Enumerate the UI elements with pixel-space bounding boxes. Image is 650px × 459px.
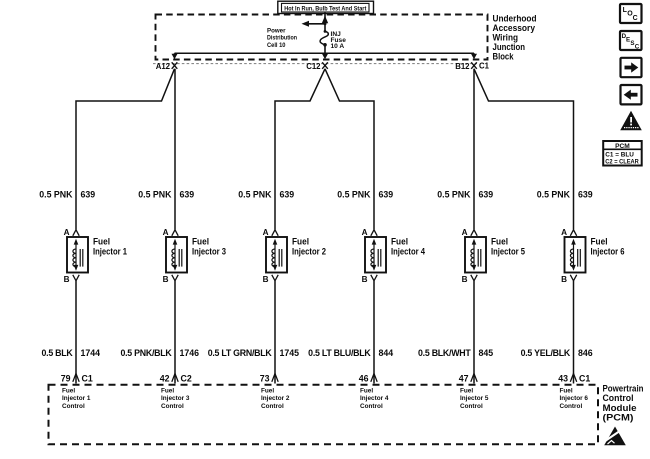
wire: Fuel Injector 3 terminal B down to PCM pin 42: [174, 281, 176, 384]
svg-text:639: 639: [578, 190, 593, 200]
svg-text:B: B: [462, 275, 468, 284]
svg-text:Fuel: Fuel: [93, 237, 110, 247]
pin connector label C1: [579, 373, 590, 383]
svg-text:Control: Control: [360, 403, 383, 410]
wire: battery feed from Hot-In-Run box down to fuse: [322, 13, 328, 31]
svg-text:Fuel: Fuel: [560, 388, 573, 395]
terminal B of Fuel Injector 3: [163, 275, 179, 284]
fuel injector 2 (Fuel Injector 2) solenoid box: [266, 237, 287, 273]
PCM pin 47 connector chevron: [471, 374, 477, 382]
wire: B12/C1 branch to injector 6 column: [474, 69, 574, 230]
wire label 0.5 PNK 639 (col 1): [39, 190, 95, 200]
svg-text:Fuel: Fuel: [360, 388, 373, 395]
svg-text:Fuel: Fuel: [62, 388, 75, 395]
svg-text:1744: 1744: [81, 348, 101, 358]
svg-text:C: C: [635, 44, 640, 51]
wire: fuse to bus bar: [324, 45, 326, 53]
terminal A of Fuel Injector 1: [64, 228, 80, 237]
connector X mark C12: [322, 62, 328, 69]
svg-text:73: 73: [260, 373, 270, 383]
pin number 42: [160, 373, 170, 383]
svg-text:Fuel: Fuel: [460, 388, 473, 395]
svg-text:Control: Control: [161, 403, 184, 410]
svg-text:1746: 1746: [180, 348, 200, 358]
terminal A of Fuel Injector 5: [462, 228, 478, 237]
svg-text:Power: Power: [267, 27, 286, 34]
wire: A12 straight down to injector 3 column: [174, 69, 176, 230]
svg-text:43: 43: [558, 373, 568, 383]
wire: A12 branch to injector 1 column: [76, 69, 175, 230]
label: Fuel Injector 4: [391, 237, 426, 257]
icon button left-arrow: [621, 85, 642, 104]
icon button DESC: [620, 31, 642, 51]
PCM internal label: Fuel Injector 6 Control: [560, 388, 589, 410]
svg-text:C: C: [633, 15, 638, 22]
svg-text:639: 639: [180, 190, 195, 200]
pin number 47: [459, 373, 469, 383]
svg-text:B: B: [263, 275, 269, 284]
svg-text:Hot In Run, Bulb Test And Star: Hot In Run, Bulb Test And Start: [284, 5, 367, 12]
svg-text:A12: A12: [156, 62, 171, 71]
svg-text:Injector 4: Injector 4: [391, 246, 426, 256]
svg-text:C12: C12: [306, 62, 321, 71]
ESD sensitivity triangle (bottom right): [604, 427, 626, 446]
svg-text:Wiring: Wiring: [493, 32, 519, 42]
svg-text:Injector 2: Injector 2: [292, 246, 326, 256]
svg-text:Fuel: Fuel: [491, 237, 508, 247]
svg-text:A: A: [263, 228, 269, 237]
svg-text:0.5 LT BLU/BLK: 0.5 LT BLU/BLK: [308, 348, 371, 358]
pin number 46: [359, 373, 369, 383]
svg-text:Control: Control: [261, 403, 284, 410]
pin number 73: [260, 373, 270, 383]
pin connector label C1: [82, 373, 93, 383]
svg-text:0.5 PNK: 0.5 PNK: [138, 190, 172, 200]
fuel injector 1 (Fuel Injector 1) solenoid box: [67, 237, 88, 273]
svg-text:Fuel: Fuel: [161, 388, 174, 395]
PCM internal label: Fuel Injector 4 Control: [360, 388, 389, 410]
svg-text:Injector 4: Injector 4: [360, 395, 389, 402]
wire label 0.5 LT GRN/BLK 1745 (col 3): [208, 348, 299, 358]
wire label 0.5 PNK 639 (col 4): [337, 190, 393, 200]
svg-text:47: 47: [459, 373, 469, 383]
svg-text:Fuel: Fuel: [391, 237, 408, 247]
svg-text:0.5 BLK: 0.5 BLK: [41, 348, 73, 358]
wire label 0.5 PNK 639 (col 5): [437, 190, 493, 200]
svg-text:639: 639: [479, 190, 494, 200]
terminal A of Fuel Injector 2: [263, 228, 279, 237]
svg-text:A: A: [163, 228, 169, 237]
svg-text:846: 846: [578, 348, 593, 358]
svg-text:10 A: 10 A: [331, 43, 345, 50]
label: Fuel Injector 5: [491, 237, 525, 257]
svg-text:0.5 PNK: 0.5 PNK: [437, 190, 471, 200]
bus drop arrow at A12: [172, 53, 178, 59]
label: Underhood Accessory Wiring Junction Block: [493, 13, 537, 61]
power feed label box: Hot In Run, Bulb Test And Start: [278, 1, 374, 13]
svg-text:0.5 PNK/BLK: 0.5 PNK/BLK: [120, 348, 172, 358]
PCM connector legend box: [603, 141, 642, 166]
wire label 0.5 YEL/BLK 846 (col 6): [521, 348, 593, 358]
label: Fuel Injector 3: [192, 237, 226, 257]
wire label 0.5 BLK/WHT 845 (col 5): [418, 348, 493, 358]
svg-text:Control: Control: [560, 403, 583, 410]
pin number 43: [558, 373, 568, 383]
fuel injector 6 (Fuel Injector 6) solenoid box: [565, 237, 586, 273]
wire: B12 straight down to injector 5 column: [473, 69, 475, 230]
terminal B of Fuel Injector 2: [263, 275, 279, 284]
powertrain control module (PCM) dashed box: [49, 385, 599, 445]
PCM internal label: Fuel Injector 2 Control: [261, 388, 290, 410]
PCM internal label: Fuel Injector 5 Control: [460, 388, 489, 410]
svg-text:B: B: [163, 275, 169, 284]
svg-text:Injector 6: Injector 6: [591, 246, 625, 256]
svg-text:Cell 10: Cell 10: [267, 42, 286, 49]
svg-text:0.5 PNK: 0.5 PNK: [537, 190, 571, 200]
wire label 0.5 LT BLU/BLK 844 (col 4): [308, 348, 393, 358]
terminal B of Fuel Injector 6: [561, 275, 577, 284]
svg-text:Underhood: Underhood: [493, 13, 537, 23]
PCM internal label: Fuel Injector 1 Control: [62, 388, 91, 410]
svg-text:Distribution: Distribution: [267, 35, 297, 42]
svg-text:Control: Control: [62, 403, 85, 410]
svg-text:PCM: PCM: [615, 143, 630, 150]
PCM internal label: Fuel Injector 3 Control: [161, 388, 190, 410]
svg-text:B12: B12: [455, 62, 470, 71]
wire: C12 branch to injector 2 column: [275, 69, 325, 230]
svg-text:0.5 BLK/WHT: 0.5 BLK/WHT: [418, 348, 471, 358]
svg-text:Injector 3: Injector 3: [161, 395, 190, 402]
svg-text:844: 844: [379, 348, 394, 358]
bus bar inside junction block: [175, 52, 475, 54]
svg-text:(PCM): (PCM): [603, 412, 634, 423]
junction block connector face (gray dotted line): [153, 63, 477, 65]
svg-text:79: 79: [61, 373, 71, 383]
svg-text:C1 = BLU: C1 = BLU: [605, 152, 634, 159]
svg-text:639: 639: [81, 190, 96, 200]
svg-text:1745: 1745: [280, 348, 300, 358]
wire label 0.5 PNK 639 (col 3): [238, 190, 294, 200]
svg-text:C1: C1: [479, 61, 490, 70]
svg-text:B: B: [561, 275, 567, 284]
fuse INJ 10 A: [320, 30, 328, 47]
svg-text:C1: C1: [579, 373, 590, 383]
terminal B of Fuel Injector 4: [362, 275, 378, 284]
svg-text:0.5 PNK: 0.5 PNK: [39, 190, 73, 200]
label: Fuel Injector 6: [591, 237, 625, 257]
PCM pin 79 connector chevron: [73, 374, 79, 382]
svg-text:0.5 PNK: 0.5 PNK: [238, 190, 272, 200]
svg-text:Fuel: Fuel: [591, 237, 608, 247]
svg-text:Accessory: Accessory: [493, 23, 536, 33]
svg-text:B: B: [64, 275, 70, 284]
svg-text:C1: C1: [82, 373, 93, 383]
bus drop arrow at C12: [322, 53, 328, 59]
PCM pin 46 connector chevron: [371, 374, 377, 382]
svg-text:Control: Control: [460, 403, 483, 410]
fuel injector 5 (Fuel Injector 5) solenoid box: [465, 237, 486, 273]
PCM pin 42 connector chevron: [172, 374, 178, 382]
wire label 0.5 PNK 639 (col 2): [138, 190, 194, 200]
wire: C12 branch to injector 4 column: [325, 69, 374, 230]
svg-text:845: 845: [479, 348, 494, 358]
svg-text:Fuel: Fuel: [192, 237, 209, 247]
terminal label C1 (right of B12): [479, 61, 490, 70]
svg-text:639: 639: [379, 190, 394, 200]
svg-text:46: 46: [359, 373, 369, 383]
svg-text:A: A: [362, 228, 368, 237]
svg-text:Fuel: Fuel: [292, 237, 309, 247]
bus drop arrow at B12: [471, 53, 477, 59]
svg-text:Injector 5: Injector 5: [460, 395, 489, 402]
svg-text:Injector 6: Injector 6: [560, 395, 589, 402]
wire: Fuel Injector 2 terminal B down to PCM pin 73: [274, 281, 276, 384]
connector X mark A12: [172, 62, 178, 69]
svg-text:Injector 3: Injector 3: [192, 246, 226, 256]
PCM pin 43 connector chevron: [570, 374, 576, 382]
svg-text:639: 639: [280, 190, 295, 200]
terminal A of Fuel Injector 4: [362, 228, 378, 237]
label: Power Distribution Cell 10: [267, 27, 297, 49]
pin number 79: [61, 373, 71, 383]
svg-text:42: 42: [160, 373, 170, 383]
fuel injector 3 (Fuel Injector 3) solenoid box: [166, 237, 187, 273]
underhood accessory wiring junction block (dashed box): [156, 15, 488, 60]
terminal label C12: [306, 62, 321, 71]
svg-text:0.5 LT GRN/BLK: 0.5 LT GRN/BLK: [208, 348, 273, 358]
terminal B of Fuel Injector 1: [64, 275, 80, 284]
icon button LOC: [620, 4, 642, 23]
wire: Fuel Injector 6 terminal B down to PCM pin 43: [573, 281, 575, 384]
wire label 0.5 PNK 639 (col 6): [537, 190, 593, 200]
wire: Fuel Injector 4 terminal B down to PCM pin 46: [373, 281, 375, 384]
svg-text:Injector 5: Injector 5: [491, 246, 525, 256]
wire label 0.5 BLK 1744 (col 1): [41, 348, 100, 358]
terminal label B12: [455, 62, 470, 71]
svg-text:Junction: Junction: [493, 42, 526, 52]
svg-text:0.5 YEL/BLK: 0.5 YEL/BLK: [521, 348, 571, 358]
fuel injector 4 (Fuel Injector 4) solenoid box: [365, 237, 386, 273]
svg-text:Injector 1: Injector 1: [93, 246, 127, 256]
warning triangle icon: [620, 111, 642, 131]
icon button right-arrow: [621, 58, 642, 77]
svg-text:B: B: [362, 275, 368, 284]
svg-text:Block: Block: [493, 51, 515, 61]
label: Powertrain Control Module (PCM): [603, 384, 644, 424]
pin connector label C2: [181, 373, 192, 383]
terminal A of Fuel Injector 3: [163, 228, 179, 237]
terminal A of Fuel Injector 6: [561, 228, 577, 237]
svg-text:Injector 1: Injector 1: [62, 395, 91, 402]
wire: Fuel Injector 5 terminal B down to PCM pin 47: [473, 281, 475, 384]
wire label 0.5 PNK/BLK 1746 (col 2): [120, 348, 199, 358]
label: Fuel Injector 1: [93, 237, 127, 257]
svg-text:Fuel: Fuel: [261, 388, 274, 395]
terminal label A12: [156, 62, 171, 71]
connector X mark B12: [471, 62, 477, 69]
wire: Fuel Injector 1 terminal B down to PCM pin 79: [75, 281, 77, 384]
svg-text:Injector 2: Injector 2: [261, 395, 290, 402]
svg-text:0.5 PNK: 0.5 PNK: [337, 190, 371, 200]
svg-text:C2: C2: [181, 373, 192, 383]
svg-text:A: A: [64, 228, 70, 237]
arrow to Power Distribution Cell 10: [302, 21, 327, 27]
label: Fuel Injector 2: [292, 237, 326, 257]
svg-text:C2 = CLEAR: C2 = CLEAR: [605, 159, 639, 166]
svg-text:A: A: [561, 228, 567, 237]
label: INJ Fuse 10 A: [331, 31, 347, 50]
PCM pin 73 connector chevron: [272, 374, 278, 382]
terminal B of Fuel Injector 5: [462, 275, 478, 284]
svg-text:A: A: [462, 228, 468, 237]
